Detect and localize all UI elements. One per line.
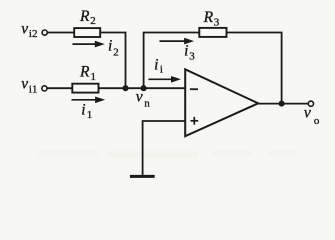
wire vi2 terminal to R2 bbox=[47, 32, 74, 34]
resistor R2 bbox=[74, 28, 100, 37]
label R2 bbox=[79, 8, 96, 27]
svg-text:i1: i1 bbox=[29, 84, 38, 96]
svg-text:i: i bbox=[184, 42, 188, 59]
svg-text:R: R bbox=[79, 63, 90, 80]
arrow i3 bbox=[160, 38, 195, 45]
arrow i1 bbox=[72, 97, 106, 104]
label vn bbox=[136, 89, 150, 110]
label i1 bbox=[81, 102, 92, 122]
ground bbox=[130, 175, 155, 178]
arrow ii bbox=[148, 76, 181, 83]
resistor R3 bbox=[199, 28, 226, 37]
label i3 bbox=[184, 42, 195, 62]
label vi1 bbox=[21, 76, 37, 96]
svg-text:R: R bbox=[79, 8, 90, 25]
terminal vi2 bbox=[42, 30, 47, 35]
wire noninverting input to ground bbox=[143, 121, 186, 175]
node A junction dot bbox=[122, 85, 128, 91]
svg-text:v: v bbox=[304, 105, 311, 122]
svg-text:v: v bbox=[21, 20, 28, 37]
svg-text:2: 2 bbox=[113, 46, 119, 58]
wire op-amp output bbox=[258, 103, 308, 105]
svg-text:v: v bbox=[21, 76, 28, 93]
svg-text:i: i bbox=[160, 63, 163, 75]
wire R2 to corner down to node A bbox=[100, 33, 125, 89]
svg-text:i: i bbox=[154, 57, 158, 74]
terminal vo bbox=[308, 101, 313, 106]
svg-text:v: v bbox=[136, 89, 143, 106]
op-amp minus pin bbox=[190, 88, 198, 90]
svg-text:i2: i2 bbox=[29, 28, 38, 40]
ghost scan smudges bbox=[38, 150, 298, 158]
arrow i2 bbox=[73, 41, 105, 48]
label i2 bbox=[108, 38, 119, 59]
wire vi1 terminal to R1 bbox=[47, 87, 72, 89]
label vo bbox=[304, 105, 320, 127]
label vi2 bbox=[21, 20, 37, 40]
wire node vn up to R3 bbox=[144, 33, 200, 89]
wire R3 to corner down to output node bbox=[227, 33, 282, 104]
label R3 bbox=[203, 9, 220, 29]
svg-text:R: R bbox=[203, 9, 214, 26]
op-amp plus pin bbox=[191, 117, 199, 125]
svg-text:i: i bbox=[108, 38, 112, 55]
node vn junction dot bbox=[141, 85, 147, 91]
op-amp U1 bbox=[185, 69, 258, 136]
label ii bbox=[154, 57, 163, 76]
svg-text:i: i bbox=[81, 102, 85, 119]
svg-text:3: 3 bbox=[189, 50, 195, 62]
svg-text:1: 1 bbox=[91, 71, 97, 83]
svg-text:1: 1 bbox=[87, 109, 93, 121]
label R1 bbox=[79, 63, 96, 83]
svg-text:n: n bbox=[144, 97, 150, 109]
output node junction dot bbox=[279, 101, 285, 107]
terminal vi1 bbox=[42, 86, 47, 91]
svg-text:2: 2 bbox=[90, 15, 96, 27]
svg-text:3: 3 bbox=[214, 17, 220, 29]
svg-text:o: o bbox=[314, 115, 320, 127]
resistor R1 bbox=[72, 84, 98, 93]
wire R1 to op-amp inverting input bbox=[99, 87, 186, 89]
